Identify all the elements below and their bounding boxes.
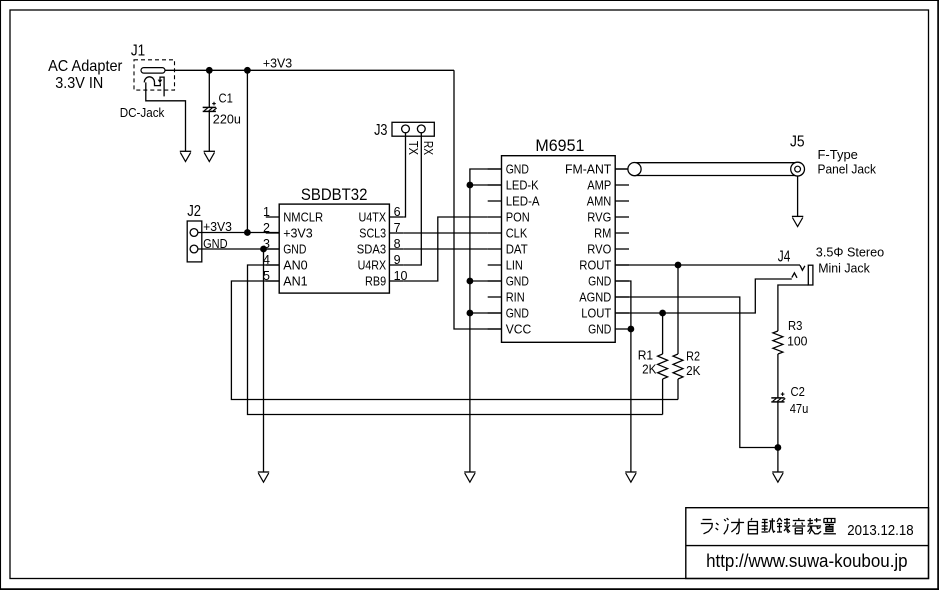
svg-text:DAT: DAT <box>506 242 528 257</box>
svg-text:100: 100 <box>787 333 807 348</box>
svg-text:C2: C2 <box>791 384 805 399</box>
svg-text:RM: RM <box>594 226 611 241</box>
svg-text:GND: GND <box>506 274 529 289</box>
svg-text:+3V3: +3V3 <box>283 226 313 241</box>
svg-text:J3: J3 <box>374 122 387 139</box>
svg-text:RVO: RVO <box>587 242 611 257</box>
svg-text:Mini Jack: Mini Jack <box>818 260 870 275</box>
svg-text:+3V3: +3V3 <box>263 56 292 71</box>
svg-text:AMP: AMP <box>587 178 611 193</box>
svg-text:RX: RX <box>421 141 436 155</box>
svg-text:PON: PON <box>506 210 530 225</box>
svg-text:2013.12.18: 2013.12.18 <box>847 522 913 539</box>
svg-text:R2: R2 <box>686 349 700 364</box>
svg-text:AN0: AN0 <box>283 258 308 273</box>
svg-text:AC Adapter: AC Adapter <box>48 58 123 75</box>
svg-text:C1: C1 <box>219 91 233 106</box>
svg-text:220u: 220u <box>213 112 241 127</box>
svg-text:2K: 2K <box>642 362 657 377</box>
svg-text:GND: GND <box>588 274 611 289</box>
svg-text:AN1: AN1 <box>283 274 308 289</box>
svg-text:GND: GND <box>506 162 529 177</box>
svg-text:RIN: RIN <box>506 290 525 305</box>
svg-text:VCC: VCC <box>506 322 532 337</box>
svg-text:3.3V IN: 3.3V IN <box>55 75 103 92</box>
svg-text:J4: J4 <box>778 248 791 265</box>
svg-text:2K: 2K <box>686 363 701 378</box>
svg-text:GND: GND <box>283 242 306 257</box>
svg-text:R3: R3 <box>788 318 802 333</box>
svg-text:SDA3: SDA3 <box>357 242 386 257</box>
svg-text:CLK: CLK <box>506 226 528 241</box>
svg-text:AGND: AGND <box>579 290 611 305</box>
svg-text:GND: GND <box>506 306 529 321</box>
svg-text:ROUT: ROUT <box>579 258 611 273</box>
svg-text:SBDBT32: SBDBT32 <box>301 185 368 204</box>
svg-text:NMCLR: NMCLR <box>283 210 323 225</box>
svg-text:U4TX: U4TX <box>359 210 387 225</box>
svg-text:RVG: RVG <box>587 210 611 225</box>
svg-text:U4RX: U4RX <box>358 258 387 273</box>
svg-text:FM-ANT: FM-ANT <box>565 162 611 177</box>
svg-text:J1: J1 <box>131 43 145 60</box>
svg-text:J5: J5 <box>790 134 805 151</box>
svg-text:DC-Jack: DC-Jack <box>120 105 165 120</box>
svg-text:LOUT: LOUT <box>581 306 611 321</box>
svg-text:AMN: AMN <box>587 194 612 209</box>
svg-text:LED-A: LED-A <box>506 194 540 209</box>
svg-text:http://www.suwa-koubou.jp: http://www.suwa-koubou.jp <box>706 551 908 571</box>
svg-text:TX: TX <box>406 141 421 155</box>
svg-text:F-Type: F-Type <box>818 147 858 162</box>
svg-text:J2: J2 <box>187 203 201 220</box>
svg-text:47u: 47u <box>790 401 809 416</box>
svg-text:LED-K: LED-K <box>506 178 539 193</box>
svg-text:SCL3: SCL3 <box>359 226 386 241</box>
svg-text:LIN: LIN <box>506 258 523 273</box>
svg-text:GND: GND <box>588 322 611 337</box>
svg-text:R1: R1 <box>638 347 653 362</box>
svg-text:Panel Jack: Panel Jack <box>818 162 877 177</box>
svg-text:RB9: RB9 <box>365 274 386 289</box>
svg-text:M6951: M6951 <box>535 136 584 155</box>
svg-text:3.5Φ Stereo: 3.5Φ Stereo <box>816 245 884 260</box>
